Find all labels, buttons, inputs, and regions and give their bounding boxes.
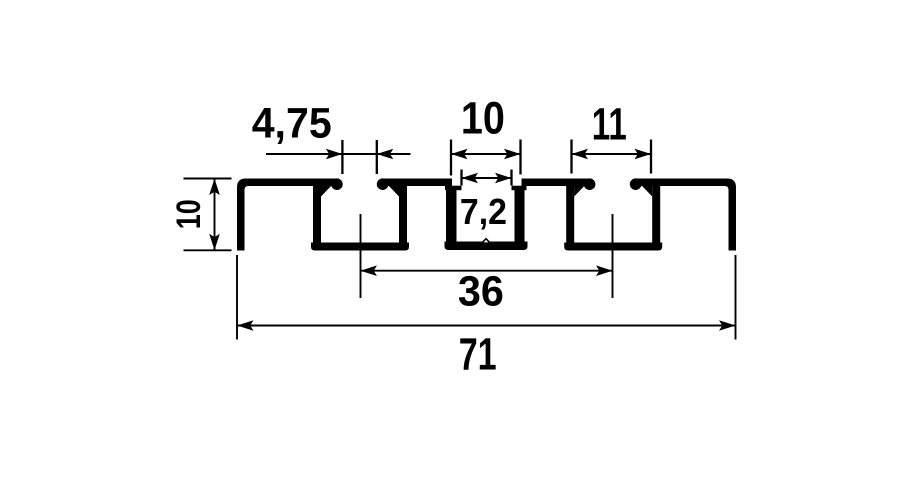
dimension 4,75: extension tick left <box>341 140 343 174</box>
dimension 71: extension line left <box>236 255 238 340</box>
dimension 10 middle: dimension line <box>451 153 521 155</box>
channel 2 lip left <box>445 186 462 191</box>
channel 1 fillet left <box>321 185 333 197</box>
dimension 11: extension tick right <box>650 140 652 174</box>
channel 3 right wall <box>652 181 660 244</box>
profile right leg <box>711 179 736 251</box>
channel 1 fillet right <box>388 185 400 197</box>
dimension 10 left: arrow down <box>209 234 220 251</box>
svg-text:7,2: 7,2 <box>460 191 507 232</box>
dimension 11: extension tick left <box>570 140 572 174</box>
dimension 7,2: arrow right <box>495 173 512 184</box>
dimension 10 left: dimension line <box>214 179 216 251</box>
dimension 10 middle: extension tick right <box>519 140 521 175</box>
dimension 11: arrow left <box>572 149 589 160</box>
profile top flange segment C <box>522 179 591 187</box>
dimension 36: arrow left <box>361 265 378 276</box>
svg-text:11: 11 <box>592 98 627 149</box>
dimension 10 left: bottom extension line <box>184 249 232 251</box>
channel 1 hook bead left <box>331 178 343 190</box>
dimension 7,2: dimension line <box>462 177 512 179</box>
profile top flange segment B <box>383 179 453 187</box>
channel 1 floor <box>311 243 409 251</box>
channel 1 left wall <box>313 181 321 244</box>
dimension 10 middle: extension tick left <box>450 140 452 176</box>
dimension 71: dimension line <box>237 325 736 327</box>
dimension 11: dimension line <box>572 153 652 155</box>
channel 1 hook bead right <box>377 178 389 190</box>
dimension 4,75: arrow pointing left <box>377 149 394 160</box>
dimension 10 middle: arrow right <box>504 149 521 160</box>
channel 1 right wall <box>399 181 407 244</box>
svg-text:71: 71 <box>459 328 497 379</box>
channel 3 floor <box>564 243 662 251</box>
dimension 71: arrow right <box>719 320 736 331</box>
dimension 4,75: extension tick right <box>376 140 378 174</box>
dimension 36: center line channel 1 <box>360 214 362 298</box>
svg-text:36: 36 <box>458 268 504 315</box>
svg-text:10: 10 <box>170 199 208 229</box>
dimension 10 left: top extension line <box>184 178 232 180</box>
channel 2 lip right <box>512 186 527 191</box>
dimension 7,2: extension tick left <box>460 170 462 186</box>
channel 3 left wall <box>566 181 574 244</box>
dimension 36: arrow right <box>596 265 613 276</box>
dimension 7,2: arrow left <box>462 173 479 184</box>
channel 3 fillet right <box>641 185 653 197</box>
svg-text:10: 10 <box>461 93 505 144</box>
channel 2 floor <box>445 242 528 251</box>
channel 3 hook bead left <box>584 178 596 190</box>
dimension 36: center line channel 3 <box>612 214 614 298</box>
channel 2 right wall <box>515 190 525 243</box>
dimension 10 left: arrow up <box>209 179 220 196</box>
dimension 11: arrow right <box>635 149 652 160</box>
profile top flange segment D <box>636 179 719 187</box>
svg-text:4,75: 4,75 <box>252 99 332 147</box>
dimension 36: dimension line <box>361 270 613 272</box>
channel 3 fillet left <box>574 185 586 197</box>
dimension 71: extension line right <box>735 255 737 340</box>
profile left leg <box>237 179 262 251</box>
dimension 71: arrow left <box>237 320 254 331</box>
dimension 7,2: extension tick right <box>510 170 512 186</box>
channel 2 left wall <box>446 190 457 243</box>
channel 2 floor center mark <box>481 238 491 243</box>
dimension 4,75: arrow pointing right <box>326 149 343 160</box>
profile top flange segment A <box>255 179 337 187</box>
dimension 10 middle: arrow left <box>451 149 468 160</box>
channel 3 hook bead right <box>630 178 642 190</box>
dimension 4,75: left line <box>266 153 411 155</box>
